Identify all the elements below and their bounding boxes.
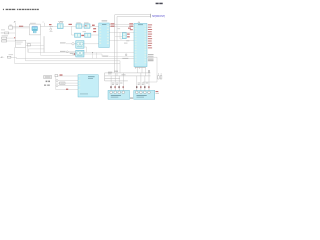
sheet number top-right [156,3,159,4]
circle row 4 [56,85,58,87]
F pin boxes left [99,26,101,44]
svg-text:o: o [43,22,44,24]
row 3 box [56,82,60,84]
verticals down to line [93,53,97,59]
right edge components [158,76,160,79]
IC D1 [75,33,81,37]
red in C2 [85,25,87,26]
H pin boxes left [78,76,80,91]
above I [111,73,123,91]
red connector D1-D2 [81,35,84,36]
tiny labels above J [138,83,149,85]
text row [2,35,8,36]
above J [137,73,149,91]
wires to down [15,47,26,63]
vert pair [27,46,30,53]
bus labels [108,72,112,73]
vertical [55,77,57,90]
G bottom stubs [136,67,146,76]
notch [138,22,140,24]
antenna marks above B [59,21,64,23]
IC B [57,24,63,29]
label left of E [60,42,66,43]
long line 3 [15,61,121,73]
connector box [9,26,13,29]
text above D2 [83,30,86,33]
G pin boxes left [135,25,137,63]
wire vertical [14,23,16,34]
tuner line down [41,55,76,57]
vertical branch down to D row [72,26,75,35]
wire [9,32,16,34]
wire C1-C2 [82,25,99,27]
IC E [76,41,84,49]
label above box [9,24,11,27]
distribution lines [28,36,134,52]
red label [19,26,23,27]
branch to clock block [109,32,134,40]
AC wire [11,57,16,58]
E to F wire [84,43,99,45]
gray text under clock [126,40,129,41]
tuner label [30,22,36,25]
red labels right of clock [127,34,130,35]
selector box [15,40,26,47]
red label [69,24,72,25]
component circle [50,28,52,30]
E right stub down [84,47,87,53]
circle row 2 [56,80,58,82]
red dot [14,37,15,38]
red pin labels right of G [148,24,152,48]
wire selector out [26,43,44,46]
connector box 2 [5,32,9,34]
text above C row [76,21,80,24]
text under G [135,66,146,69]
label left [1,32,4,33]
speaker terminal [149,14,151,18]
tuner outputs down [41,35,44,56]
label left of K [70,53,73,54]
text above F [102,20,108,21]
row 5 [56,89,78,91]
wires from jacks [7,34,16,41]
tuner IC [32,26,38,31]
tuner box [29,24,40,35]
gray mid text [118,27,121,30]
IC D2 [85,33,91,37]
red label right of J [156,91,159,92]
clock block [122,33,126,39]
red label top [130,29,133,30]
IC F [99,23,110,48]
jack box 1 [2,37,7,39]
wire tuner to IF [40,25,57,27]
IC C2 [84,24,90,28]
wire row 1 [109,23,134,25]
title [3,9,4,10]
gray pin labels right of G lower [148,54,154,61]
F inner label [102,23,106,26]
wire row 3 [109,31,134,33]
small box [27,44,30,46]
stub up [43,23,45,27]
wire pair to tuner [13,27,30,28]
svg-text:SP(FRONT): SP(FRONT) [152,14,165,18]
IC C1 [76,24,82,28]
wire D2 to F [91,34,99,36]
red label [49,24,52,25]
K out line [84,54,134,56]
jack box 2 [2,40,7,42]
crystal left of G [126,54,127,56]
second input row [60,51,66,52]
red labels left of F [93,28,96,29]
red labels on rows [111,23,115,24]
tiny text left edge [1,28,5,31]
wire row 2 [109,26,134,28]
G pin boxes right [145,25,147,63]
tiny labels above I [112,83,123,85]
IC G [134,23,147,66]
IC K [76,50,84,57]
small text [50,25,53,28]
F pin boxes right [107,26,109,44]
long line 2 [25,60,120,62]
connector [55,74,58,76]
G right route [143,57,157,82]
G inner label [138,23,143,26]
text on line [122,58,128,59]
red label before F [92,25,95,26]
long line 1 [16,57,134,59]
text between I and J [130,97,133,99]
tuner sub-block [33,31,36,33]
AC connector [7,56,11,58]
junction dot [92,52,93,53]
wire B to C1 [63,25,76,27]
